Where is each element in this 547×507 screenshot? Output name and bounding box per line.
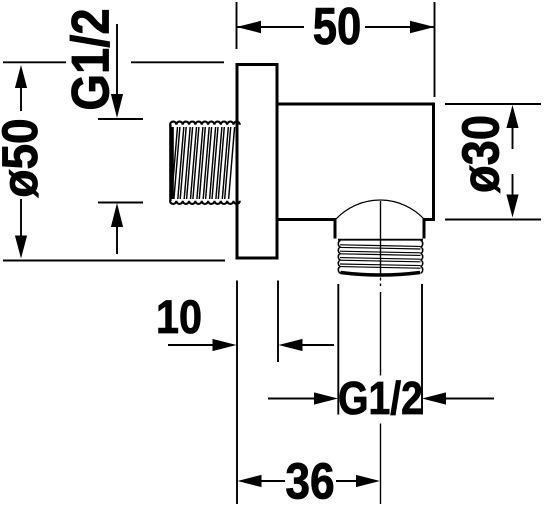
svg-text:ø50: ø50 [0, 118, 48, 197]
svg-text:G1/2: G1/2 [338, 373, 423, 425]
svg-text:50: 50 [313, 0, 362, 56]
svg-text:10: 10 [156, 292, 202, 344]
svg-text:G1/2: G1/2 [61, 8, 120, 110]
svg-text:ø30: ø30 [453, 115, 511, 193]
svg-text:36: 36 [285, 454, 334, 507]
